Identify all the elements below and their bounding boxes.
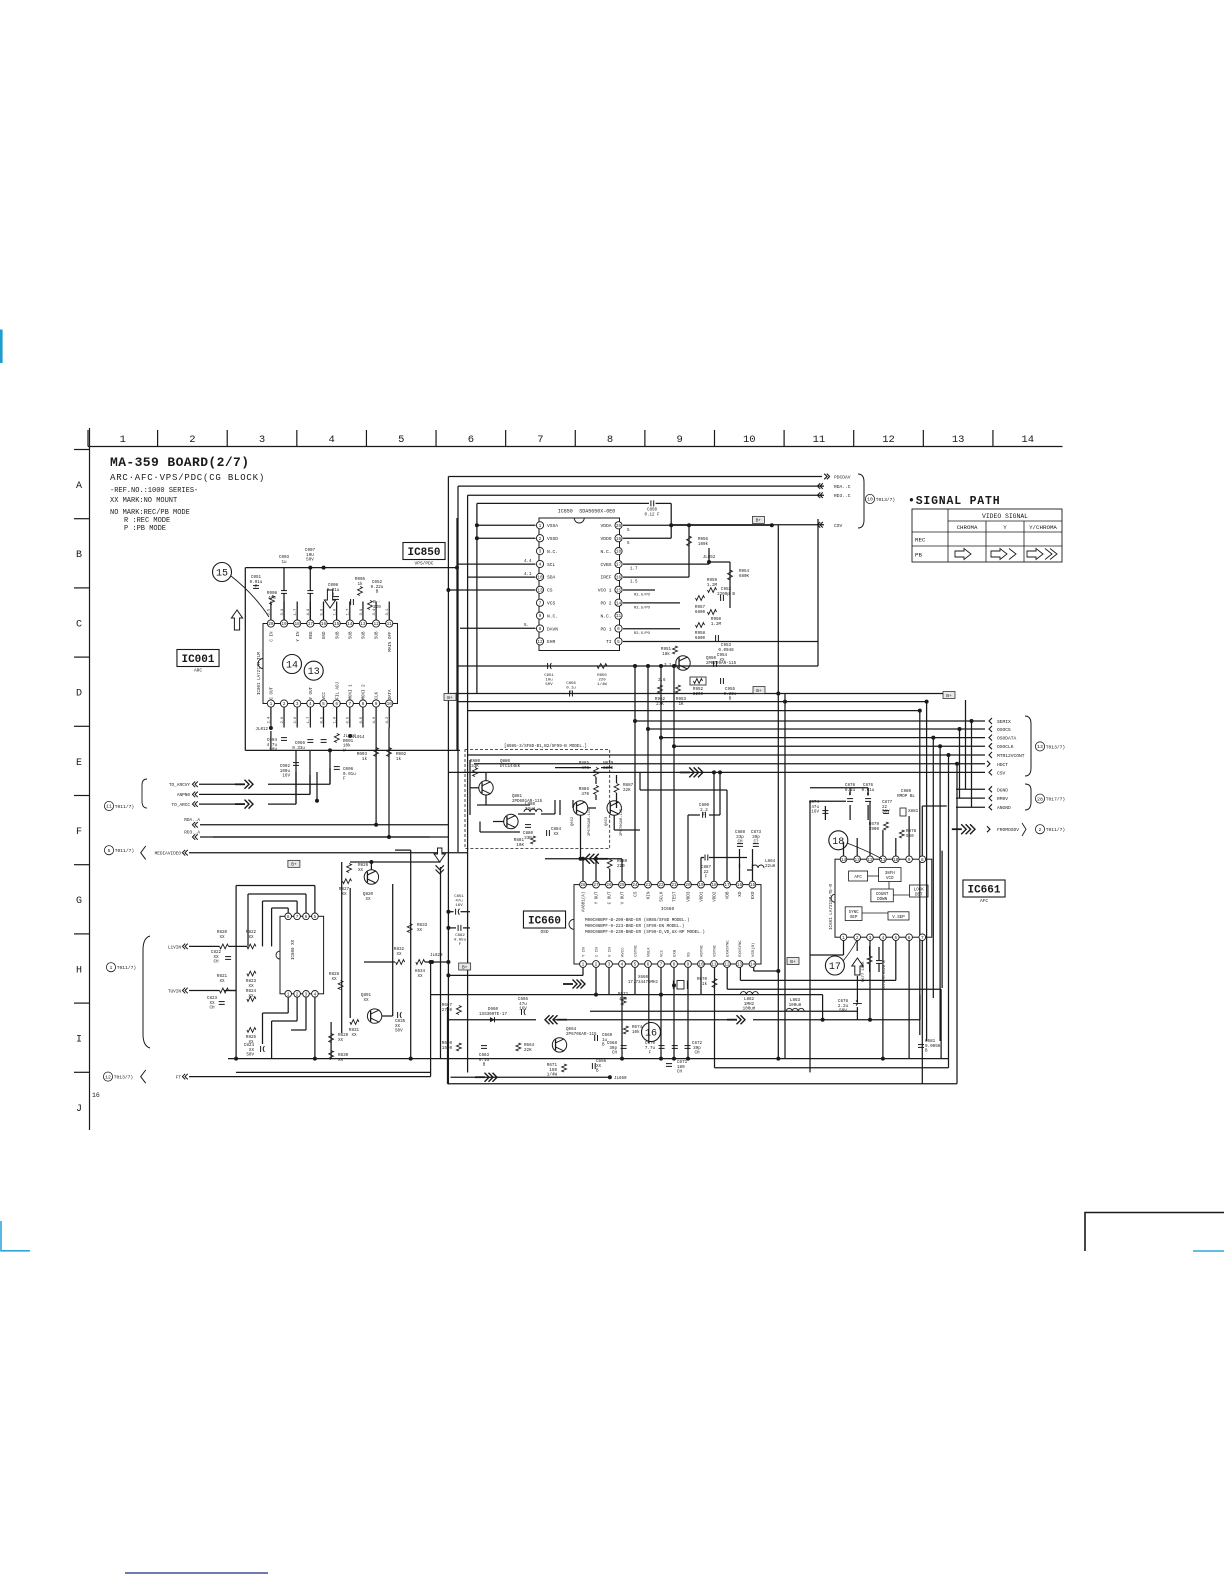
- svg-text:1: 1: [582, 963, 585, 968]
- svg-text:VSS(O): VSS(O): [751, 943, 756, 957]
- svg-text:3: 3: [869, 936, 872, 941]
- svg-text:KIN: KIN: [647, 891, 652, 899]
- svg-text:C IN: C IN: [271, 631, 275, 642]
- svg-text:3: 3: [296, 702, 299, 707]
- svg-text:33K: 33K: [471, 764, 479, 769]
- connector FROMOSDV: [952, 828, 962, 830]
- svg-text:470: 470: [581, 766, 589, 771]
- svg-text:VSSA: VSSA: [547, 523, 558, 529]
- svg-text:ANPN0: ANPN0: [177, 793, 191, 798]
- svg-text:11: 11: [616, 614, 622, 619]
- svg-text:N.C.: N.C.: [547, 613, 558, 619]
- B+ label mid: [752, 516, 764, 523]
- svg-text:W: W: [343, 749, 346, 754]
- vertical bus wires left of IC850 box: [447, 477, 449, 1085]
- IC661 AFC chip LA7215M: [835, 859, 932, 937]
- svg-text:2.6: 2.6: [658, 679, 666, 683]
- svg-text:4.1: 4.1: [524, 573, 532, 577]
- ref (13)T013/7): [1035, 742, 1044, 751]
- svg-text:0.5: 0.5: [347, 716, 351, 724]
- svg-text:OSODATA: OSODATA: [997, 736, 1017, 742]
- svg-text:0.1u: 0.1u: [566, 687, 576, 691]
- svg-text:5: 5: [322, 702, 325, 707]
- svg-text:1.2M: 1.2M: [711, 622, 722, 627]
- svg-text:B: B: [376, 590, 379, 595]
- svg-text:1.7: 1.7: [294, 609, 298, 616]
- svg-text:B: B: [729, 697, 732, 702]
- svg-text:26: 26: [606, 883, 612, 888]
- svg-text:PD 2: PD 2: [600, 601, 611, 607]
- svg-text:V.SEP: V.SEP: [892, 916, 905, 920]
- svg-text:AV881(A): AV881(A): [582, 892, 587, 912]
- svg-text:13: 13: [308, 667, 320, 678]
- svg-text:J: J: [76, 1104, 82, 1115]
- bottom rails: [431, 994, 823, 996]
- svg-text:13: 13: [855, 858, 861, 863]
- svg-text:RM9V: RM9V: [997, 796, 1008, 802]
- svg-text:XX MARK:NO MOUNT: XX MARK:NO MOUNT: [110, 497, 177, 505]
- flow arrow up and R677 C679 C678 below IC661: [852, 958, 863, 975]
- svg-text:TEST: TEST: [673, 891, 678, 902]
- svg-text:13: 13: [360, 622, 366, 627]
- svg-text:IC850: IC850: [558, 509, 573, 515]
- svg-text:11: 11: [813, 434, 826, 446]
- svg-text:13: 13: [1037, 744, 1043, 750]
- svg-text:SEP: SEP: [850, 916, 858, 920]
- svg-text:1u: 1u: [281, 560, 287, 565]
- svg-text:20: 20: [616, 524, 622, 529]
- svg-text:2200: 2200: [693, 692, 704, 697]
- svg-text:JL852: JL852: [703, 556, 716, 560]
- svg-text:V OUT: V OUT: [621, 891, 626, 904]
- svg-text:CSV: CSV: [997, 770, 1006, 776]
- svg-text:PDCDAV: PDCDAV: [834, 475, 851, 481]
- svg-text:R677 180K: R677 180K: [862, 961, 866, 982]
- svg-text:Q880: Q880: [500, 760, 511, 764]
- svg-text:19: 19: [616, 537, 622, 542]
- svg-text:100uH: 100uH: [789, 1003, 802, 1008]
- svg-text:14: 14: [841, 858, 847, 863]
- svg-text:7: 7: [296, 915, 299, 920]
- svg-text:C?: C?: [753, 840, 759, 845]
- svg-text:B+: B+: [946, 693, 952, 699]
- wires from left connectors: [199, 783, 243, 785]
- svg-text:2200p B: 2200p B: [717, 592, 735, 597]
- svg-text:5.9: 5.9: [320, 608, 324, 616]
- svg-text:XX: XX: [219, 979, 225, 984]
- svg-text:50V: 50V: [545, 683, 553, 687]
- svg-text:1k: 1k: [357, 582, 363, 587]
- registration mark black corner bottom-right: [1085, 1213, 1224, 1252]
- svg-text:9: 9: [539, 614, 542, 619]
- svg-text:2: 2: [856, 936, 859, 941]
- svg-text:16V: 16V: [519, 1007, 527, 1012]
- B+ label IC880: [288, 860, 300, 867]
- svg-text:VDDA: VDDA: [600, 523, 611, 529]
- svg-text:19: 19: [698, 883, 704, 888]
- svg-text:11: 11: [106, 804, 112, 810]
- svg-text:4: 4: [328, 434, 334, 446]
- IC661 surrounding discretes: [822, 810, 828, 812]
- svg-text:6800: 6800: [695, 636, 706, 641]
- svg-text:XX: XX: [331, 977, 337, 982]
- svg-text:AFC: AFC: [980, 898, 988, 904]
- svg-text:VDDO: VDDO: [600, 536, 611, 542]
- svg-text:FIL ADJ: FIL ADJ: [336, 681, 340, 699]
- svg-text:12: 12: [373, 622, 379, 627]
- svg-text:11: 11: [387, 622, 393, 627]
- svg-text:15: 15: [334, 622, 340, 627]
- svg-text:TO_ARCVY: TO_ARCVY: [169, 783, 190, 788]
- B+ label left: [444, 694, 456, 701]
- svg-text:B+: B+: [291, 862, 297, 868]
- svg-text:-REF.NO.:1000 SERIES-: -REF.NO.:1000 SERIES-: [110, 487, 198, 495]
- svg-text:JL014: JL014: [352, 736, 365, 740]
- svg-text:1/4W: 1/4W: [597, 682, 607, 687]
- svg-text:5: 5: [617, 640, 620, 645]
- svg-text:VPS/PDC: VPS/PDC: [415, 561, 434, 567]
- svg-text:R :REC MODE: R :REC MODE: [124, 517, 170, 525]
- svg-text:VDD2: VDD2: [713, 891, 718, 902]
- svg-text:2: 2: [1039, 827, 1042, 833]
- svg-text:XX: XX: [365, 897, 371, 902]
- svg-text:P :PB MODE: P :PB MODE: [124, 525, 166, 533]
- svg-text:SDA: SDA: [547, 575, 556, 581]
- svg-text:RD3..A: RD3..A: [184, 831, 200, 836]
- svg-text:T011/7): T011/7): [115, 804, 134, 810]
- svg-text:B: B: [483, 1063, 486, 1068]
- svg-text:R2.5/PO: R2.5/PO: [634, 631, 651, 636]
- components below IC001: [269, 726, 273, 730]
- extra wire network: [582, 859, 584, 881]
- svg-text:M90C06BPF-9-223-BND-ER (SF99-E: M90C06BPF-9-223-BND-ER (SF99-EN MODEL.): [585, 924, 684, 929]
- svg-text:M90C06BPF-B-209-BND-ER (8985/S: M90C06BPF-B-209-BND-ER (8985/SF8D MODEL.…: [585, 918, 690, 923]
- svg-text:0.05u: 0.05u: [454, 939, 467, 943]
- svg-text:7: 7: [348, 702, 351, 707]
- svg-text:4: 4: [882, 936, 885, 941]
- svg-text:1: 1: [110, 965, 113, 971]
- registration mark cyan tick bottom-right: [1193, 1250, 1224, 1252]
- IC661 boxed designator label: [963, 880, 1005, 897]
- vertical feeders bus to IC660 pins 24-21: [634, 666, 636, 881]
- svg-text:10: 10: [537, 576, 543, 581]
- IC001 boxed designator label: [177, 650, 219, 667]
- svg-text:SCLK: SCLK: [660, 891, 665, 902]
- svg-text:2P670GAR-115: 2P670GAR-115: [620, 808, 624, 836]
- svg-text:XX: XX: [417, 974, 423, 979]
- svg-text:16: 16: [645, 1029, 657, 1040]
- svg-text:16: 16: [737, 883, 743, 888]
- svg-text:T017/7): T017/7): [1046, 797, 1065, 803]
- svg-text:6: 6: [305, 915, 308, 920]
- svg-text:CS: CS: [634, 891, 639, 897]
- svg-text:F: F: [649, 1051, 652, 1056]
- svg-text:4: 4: [309, 702, 312, 707]
- svg-text:MA-359 BOARD(2/7): MA-359 BOARD(2/7): [110, 455, 249, 470]
- svg-text:C851: C851: [454, 895, 464, 899]
- svg-text:•SIGNAL PATH: •SIGNAL PATH: [908, 495, 1000, 508]
- svg-text:22K: 22K: [524, 1048, 532, 1053]
- svg-text:FT: FT: [176, 1076, 182, 1081]
- svg-text:1.2M: 1.2M: [707, 583, 718, 588]
- svg-text:XX: XX: [719, 658, 725, 663]
- svg-text:1: 1: [539, 524, 542, 529]
- dashed option box with Q880 Q881 Q662 Q663: [465, 750, 610, 849]
- svg-text:24: 24: [632, 883, 638, 888]
- svg-text:12: 12: [867, 858, 873, 863]
- svg-text:14: 14: [347, 622, 353, 627]
- svg-text:VCS: VCS: [547, 601, 556, 607]
- svg-text:12: 12: [105, 1074, 111, 1080]
- svg-text:CH: CH: [213, 960, 219, 965]
- svg-text:XX: XX: [358, 868, 364, 873]
- svg-text:MONI 1: MONI 1: [349, 684, 353, 700]
- bottom component row: [457, 1006, 462, 1015]
- svg-text:EXVSYNC: EXVSYNC: [739, 940, 743, 957]
- footer navy rule: [125, 1572, 268, 1574]
- svg-text:Y OUT: Y OUT: [310, 686, 314, 699]
- svg-text:SUB: SUB: [363, 631, 367, 639]
- svg-text:SUB: SUB: [349, 631, 353, 639]
- svg-text:Q662: Q662: [571, 816, 575, 826]
- svg-text:2P670GAR-115: 2P670GAR-115: [588, 808, 592, 836]
- svg-text:50V: 50V: [882, 810, 890, 815]
- svg-text:XX: XX: [417, 928, 423, 933]
- svg-text:50V: 50V: [246, 1053, 254, 1058]
- svg-text:220: 220: [598, 679, 606, 683]
- svg-text:16: 16: [616, 576, 622, 581]
- svg-text:1.7: 1.7: [630, 568, 638, 572]
- svg-text:SYNC: SYNC: [849, 911, 860, 915]
- svg-text:10K: 10K: [516, 843, 524, 848]
- svg-text:22K: 22K: [623, 788, 631, 793]
- svg-text:VDD3: VDD3: [687, 891, 692, 902]
- svg-text:R670: R670: [697, 978, 708, 982]
- svg-text:CSYNC: CSYNC: [635, 944, 639, 957]
- svg-text:Q663: Q663: [605, 816, 609, 826]
- svg-text:18: 18: [711, 883, 717, 888]
- svg-text:XX: XX: [338, 1038, 344, 1043]
- svg-text:MEDIAVIDEO: MEDIAVIDEO: [155, 852, 182, 857]
- svg-text:REG: REG: [310, 631, 314, 639]
- capacitor C882 0.05u F: [448, 927, 456, 929]
- svg-text:100uH: 100uH: [743, 1007, 756, 1012]
- svg-text:6800: 6800: [603, 766, 614, 771]
- registration mark cyan bar left edge: [0, 330, 3, 364]
- svg-text:IC850: IC850: [407, 547, 440, 559]
- svg-text:21: 21: [671, 883, 677, 888]
- svg-text:1K: 1K: [678, 702, 684, 707]
- svg-text:11: 11: [711, 963, 717, 968]
- svg-text:1k: 1k: [396, 757, 402, 762]
- svg-text:2: 2: [595, 963, 598, 968]
- svg-text:16V: 16V: [282, 774, 290, 779]
- svg-text:IC880 XX: IC880 XX: [292, 939, 296, 960]
- svg-text:14: 14: [750, 963, 756, 968]
- svg-text:R2.5/PO: R2.5/PO: [634, 605, 651, 610]
- svg-text:X660: X660: [638, 976, 649, 980]
- svg-text:13: 13: [737, 963, 743, 968]
- svg-text:TO_ARCC: TO_ARCC: [172, 803, 191, 808]
- middle components C890 C887 C888 C873 L864 R889: [680, 771, 690, 773]
- svg-text:4: 4: [539, 563, 542, 568]
- IC880 surrounding discretes: [220, 944, 229, 949]
- svg-text:PB: PB: [915, 552, 922, 559]
- svg-text:XO: XO: [738, 891, 743, 897]
- svg-text:CH: CH: [737, 840, 743, 845]
- svg-text:C OUT: C OUT: [608, 891, 613, 904]
- svg-text:27K: 27K: [656, 702, 664, 707]
- svg-text:T013/7): T013/7): [1046, 744, 1065, 750]
- IC850 right pin wires: [623, 524, 671, 526]
- svg-text:B+: B+: [756, 688, 762, 694]
- svg-text:2.6: 2.6: [281, 716, 285, 724]
- svg-text:Y IN: Y IN: [583, 947, 587, 957]
- svg-text:DOWN: DOWN: [877, 898, 888, 902]
- svg-text:XX: XX: [248, 994, 254, 999]
- svg-text:H: H: [76, 965, 82, 976]
- svg-text:2: 2: [539, 537, 542, 542]
- svg-text:680K: 680K: [739, 575, 750, 579]
- svg-text:8: 8: [921, 858, 924, 863]
- svg-text:XX: XX: [248, 935, 254, 940]
- svg-text:PD 1: PD 1: [600, 626, 611, 632]
- circled 16: [642, 1023, 661, 1042]
- svg-text:16V: 16V: [811, 810, 819, 815]
- ref (12)T013/7): [103, 1072, 112, 1081]
- svg-text:470: 470: [581, 792, 589, 797]
- IC660 OSD chip: [574, 885, 761, 964]
- svg-text:50V: 50V: [306, 558, 314, 563]
- svg-text:N.C.: N.C.: [600, 613, 611, 619]
- vertical wires right region: [919, 711, 921, 1035]
- left edge connectors: [195, 782, 198, 788]
- svg-text:HSYNC: HSYNC: [701, 944, 705, 957]
- components above IC001 (C003 C007 C051 R008 R005 C008 C052): [245, 567, 457, 569]
- svg-text:220: 220: [617, 864, 625, 869]
- svg-text:VBLK: VBLK: [648, 947, 652, 957]
- svg-text:13: 13: [537, 588, 543, 593]
- svg-text:G: G: [76, 896, 82, 907]
- svg-text:470: 470: [619, 997, 627, 1002]
- svg-text:T011/7): T011/7): [115, 848, 134, 854]
- svg-text:ARC: ARC: [194, 668, 202, 674]
- svg-text:17: 17: [616, 563, 622, 568]
- circled 17: [825, 956, 844, 975]
- svg-text:8.5: 8.5: [320, 716, 324, 724]
- IC660 boxed designator label: [523, 911, 565, 928]
- svg-text:1.9: 1.9: [333, 608, 337, 616]
- svg-text:B+: B+: [756, 518, 762, 524]
- svg-text:560: 560: [906, 834, 914, 839]
- svg-text:VSYNC: VSYNC: [714, 944, 718, 957]
- svg-text:C: C: [76, 619, 82, 630]
- svg-text:GND: GND: [323, 631, 327, 639]
- svg-text:A: A: [76, 481, 82, 492]
- svg-text:5: 5: [108, 848, 111, 854]
- svg-text:1500: 1500: [442, 1046, 453, 1051]
- svg-text:6: 6: [468, 434, 474, 446]
- svg-text:L1VIN: L1VIN: [168, 945, 182, 950]
- svg-text:SCL: SCL: [547, 562, 556, 568]
- svg-text:1.7: 1.7: [307, 717, 311, 724]
- svg-text:1SS300TE-17: 1SS300TE-17: [479, 1012, 508, 1017]
- svg-text:9: 9: [375, 702, 378, 707]
- svg-text:3: 3: [608, 963, 611, 968]
- svg-text:B: B: [596, 1069, 599, 1074]
- svg-text:C882: C882: [455, 934, 465, 938]
- svg-text:T011/7): T011/7): [1046, 827, 1065, 833]
- svg-text:22: 22: [658, 883, 664, 888]
- svg-text:AFC: AFC: [854, 876, 862, 880]
- svg-text:CH: CH: [612, 1051, 618, 1056]
- svg-text:6800: 6800: [695, 610, 706, 615]
- svg-text:ARC·AFC·VPS/PDC(CG BLOCK): ARC·AFC·VPS/PDC(CG BLOCK): [110, 473, 265, 483]
- ref (1)T011/7): [106, 963, 115, 972]
- left bracket refs: [143, 936, 150, 1048]
- svg-text:7: 7: [539, 601, 542, 606]
- svg-text:8: 8: [362, 702, 365, 707]
- svg-text:13: 13: [952, 434, 965, 446]
- svg-text:2: 2: [296, 992, 299, 997]
- svg-text:VDB: VDB: [726, 891, 731, 899]
- circled 15: [213, 563, 232, 582]
- svg-text:EXO: EXO: [751, 891, 756, 899]
- svg-text:18: 18: [295, 622, 301, 627]
- connector group right OSD signals: [989, 718, 992, 724]
- svg-text:VSSD: VSSD: [547, 536, 558, 542]
- ref (28)T017/7): [1035, 794, 1044, 803]
- IC850 boxed designator label: [403, 543, 445, 560]
- svg-text:SUB: SUB: [336, 631, 340, 639]
- IC880 chip: [280, 916, 324, 994]
- svg-text:4: 4: [314, 992, 317, 997]
- svg-text:B: B: [925, 1049, 928, 1054]
- svg-text:C IN: C IN: [596, 947, 600, 957]
- svg-text:VCC: VCC: [661, 949, 665, 957]
- svg-text:100k: 100k: [698, 542, 709, 547]
- svg-text:1k: 1k: [702, 982, 708, 987]
- svg-text:6: 6: [908, 936, 911, 941]
- svg-text:DATA: DATA: [389, 689, 393, 700]
- svg-text:3.9: 3.9: [360, 608, 364, 616]
- svg-text:IC001 LA7277M-TLM: IC001 LA7277M-TLM: [258, 652, 262, 695]
- svg-text:18k: 18k: [662, 652, 670, 657]
- IC850 box bottom rails: [450, 693, 949, 695]
- svg-text:CH: CH: [694, 1051, 700, 1056]
- svg-text:Y OUT: Y OUT: [595, 891, 600, 904]
- svg-text:XX: XX: [363, 998, 369, 1003]
- svg-text:10: 10: [893, 858, 899, 863]
- svg-text:1: 1: [287, 992, 290, 997]
- registration mark cyan corner bottom-left: [1, 1221, 30, 1251]
- svg-text:XX: XX: [396, 952, 402, 957]
- svg-text:MTR12VCONT: MTR12VCONT: [997, 753, 1025, 759]
- B+ label mid2: [753, 687, 765, 694]
- svg-text:22uH: 22uH: [765, 864, 776, 869]
- svg-text:F: F: [705, 875, 708, 880]
- svg-text:7: 7: [537, 434, 543, 446]
- svg-text:25: 25: [619, 883, 625, 888]
- svg-text:MAIN OFF: MAIN OFF: [389, 631, 393, 652]
- svg-text:X5: X5: [688, 952, 692, 957]
- svg-text:47u: 47u: [455, 900, 463, 904]
- svg-text:SDA5650X-0E0: SDA5650X-0E0: [579, 509, 615, 515]
- svg-text:4.4: 4.4: [524, 560, 532, 564]
- svg-text:10u: 10u: [545, 679, 553, 683]
- svg-text:2: 2: [189, 434, 195, 446]
- svg-text:6: 6: [647, 963, 650, 968]
